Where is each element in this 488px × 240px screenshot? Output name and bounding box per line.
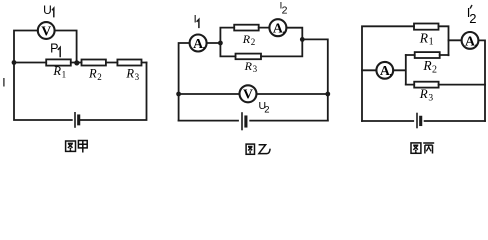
svg-text:2: 2 xyxy=(251,37,256,47)
svg-text:R: R xyxy=(52,64,61,78)
svg-text:R: R xyxy=(242,32,251,46)
svg-text:V: V xyxy=(243,87,253,102)
svg-text:A: A xyxy=(273,21,283,36)
svg-text:3: 3 xyxy=(428,93,433,103)
svg-text:A: A xyxy=(380,63,390,78)
svg-text:3: 3 xyxy=(135,72,140,82)
svg-text:R: R xyxy=(419,86,428,101)
svg-text:A: A xyxy=(193,36,203,51)
svg-text:R: R xyxy=(125,67,134,81)
svg-text:2: 2 xyxy=(264,104,269,115)
svg-text:2: 2 xyxy=(432,64,437,75)
svg-text:R: R xyxy=(419,31,429,46)
svg-text:3: 3 xyxy=(253,64,258,74)
svg-text:2: 2 xyxy=(282,4,288,16)
svg-text:R: R xyxy=(244,59,253,73)
svg-text:P: P xyxy=(50,41,58,55)
svg-text:I: I xyxy=(194,13,197,25)
svg-text:A: A xyxy=(465,33,475,48)
svg-text:1: 1 xyxy=(62,70,67,80)
svg-text:U: U xyxy=(43,3,52,17)
svg-text:R: R xyxy=(422,58,432,73)
svg-text:I: I xyxy=(2,76,5,90)
svg-text:2: 2 xyxy=(469,11,476,26)
svg-text:V: V xyxy=(41,23,51,38)
svg-text:1: 1 xyxy=(429,36,434,47)
svg-text:2: 2 xyxy=(97,72,102,82)
svg-text:R: R xyxy=(88,67,97,81)
